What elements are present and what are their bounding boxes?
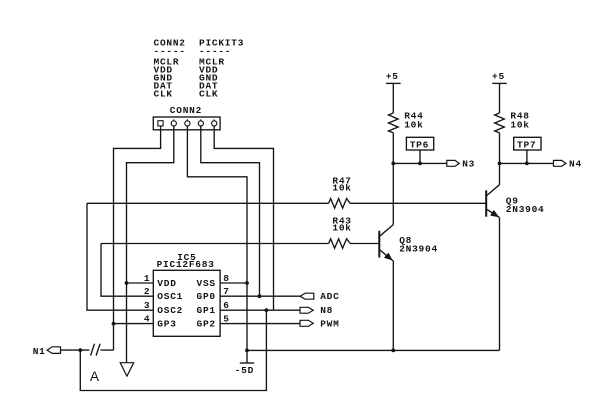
svg-text:N3: N3 xyxy=(462,158,475,169)
svg-text:CLK: CLK xyxy=(199,89,218,100)
wire OSC2 left riser xyxy=(87,203,153,310)
svg-text:TP7: TP7 xyxy=(517,140,536,151)
port N4 xyxy=(554,158,582,169)
wire OSC1 net to R43 xyxy=(101,243,329,245)
Q9 collector xyxy=(486,185,499,196)
junction dot GP1 xyxy=(265,308,269,312)
wire VSS to GND net xyxy=(220,282,247,284)
op IC5 PIC12F683 xyxy=(153,252,220,337)
junction dot N1 xyxy=(78,348,82,352)
resistor R44 xyxy=(389,110,424,132)
port ADC xyxy=(300,291,340,302)
wire OSC2 net to R47 xyxy=(87,202,329,204)
svg-text:VDD: VDD xyxy=(157,278,176,289)
svg-text:+5: +5 xyxy=(386,71,399,82)
svg-text:10k: 10k xyxy=(510,119,529,130)
node CONN2/PICKIT3 pin-name table xyxy=(154,38,245,100)
wire CONN2 pin4 to DAT net xyxy=(201,126,260,296)
wire node N4 rail xyxy=(500,162,554,164)
power +5 (right) xyxy=(492,71,507,83)
junction dot GP3 xyxy=(112,322,116,326)
wire +5 to R48 xyxy=(499,83,501,113)
testpoint TP7 xyxy=(514,137,541,150)
junction dot R44 node xyxy=(391,162,395,166)
ground triangle xyxy=(120,363,134,377)
wire OSC1 left riser xyxy=(101,244,153,297)
svg-text:10k: 10k xyxy=(332,223,351,234)
Q8 emitter arrow xyxy=(384,253,393,261)
wire node N3 rail xyxy=(393,162,447,164)
svg-text:N8: N8 xyxy=(320,305,333,316)
svg-text:2: 2 xyxy=(144,286,150,297)
resistor R47 xyxy=(329,175,352,208)
svg-text:PIC12F683: PIC12F683 xyxy=(157,259,215,270)
port PWM xyxy=(300,318,340,329)
svg-text:10k: 10k xyxy=(332,183,351,194)
pin 4 tick xyxy=(200,119,202,121)
wire breaker to GP3 riser xyxy=(101,349,114,351)
port N3 xyxy=(447,158,475,169)
svg-text:2N3904: 2N3904 xyxy=(399,244,438,255)
junction dot GP0 xyxy=(258,294,262,298)
Q9 emitter xyxy=(486,209,499,218)
junction dot TP6 node xyxy=(418,162,422,166)
Q8 collector xyxy=(379,225,393,237)
svg-text:GP2: GP2 xyxy=(197,319,216,330)
svg-text:N1: N1 xyxy=(33,346,46,357)
wire R44 to Q8 collector xyxy=(392,133,394,225)
pin 2 pad xyxy=(171,121,176,126)
Q9 emitter arrow xyxy=(490,210,499,217)
pin 4 pad xyxy=(198,121,203,126)
svg-text:10k: 10k xyxy=(404,119,423,130)
svg-text:PWM: PWM xyxy=(320,318,339,329)
svg-text:-5D: -5D xyxy=(235,365,254,376)
wire N1 to breaker xyxy=(61,349,90,351)
wire +5 to R44 xyxy=(392,83,394,113)
svg-text:GP0: GP0 xyxy=(197,291,216,302)
wire -5D bottom rail xyxy=(247,349,500,351)
svg-text:CONN2: CONN2 xyxy=(170,105,202,116)
testpoint TP6 xyxy=(406,137,433,150)
ground -5D xyxy=(235,363,254,376)
wire GP0 to ADC xyxy=(220,295,300,297)
pin 1 square pad xyxy=(158,121,163,126)
junction dot R48 node xyxy=(498,162,502,166)
svg-text:2N3904: 2N3904 xyxy=(506,204,545,215)
port N1 xyxy=(33,346,61,357)
Q8 emitter xyxy=(379,250,393,262)
wire Q8 emitter to rail xyxy=(392,261,394,350)
svg-text:A: A xyxy=(90,369,99,384)
pin 3 pad xyxy=(185,121,190,126)
pin 3 tick xyxy=(186,119,188,121)
wire GP2 to PWM xyxy=(220,323,300,325)
wire TP7 to node xyxy=(526,150,528,163)
wire CONN2 pin3 to GND net xyxy=(187,126,247,363)
transistor Q9 2N3904 xyxy=(486,185,544,218)
svg-text:1: 1 xyxy=(144,273,150,284)
transistor Q8 2N3904 xyxy=(379,225,438,261)
wire GP1 to N8 xyxy=(220,309,300,311)
pin 2 tick xyxy=(173,119,175,121)
wire Q9 emitter to rail xyxy=(499,218,501,351)
junction dot VSS xyxy=(245,281,249,285)
wire R47 to Q9 base xyxy=(350,202,486,204)
svg-text:ADC: ADC xyxy=(320,291,339,302)
svg-text:OSC2: OSC2 xyxy=(157,305,183,316)
wire GP3 stub xyxy=(114,323,154,325)
resistor R48 xyxy=(495,110,530,132)
wire R48 to Q9 collector xyxy=(499,133,501,185)
svg-text:+5: +5 xyxy=(492,71,505,82)
svg-text:GP1: GP1 xyxy=(197,305,216,316)
power +5 (left) xyxy=(386,71,401,83)
port N8 xyxy=(300,305,333,316)
svg-text:VSS: VSS xyxy=(197,278,216,289)
junction dot VDD xyxy=(125,281,129,285)
junction dot Q8 emitter rail xyxy=(391,349,395,353)
resistor R43 xyxy=(329,215,352,248)
capacitor breaker slashes xyxy=(91,344,101,356)
pin 5 pad xyxy=(212,121,217,126)
wire VDD stub xyxy=(127,282,154,284)
wire TP6 to node xyxy=(419,150,421,163)
svg-text:N4: N4 xyxy=(569,158,582,169)
pin 5 tick xyxy=(213,119,215,121)
junction dot GND rail xyxy=(245,349,249,353)
wire R43 to Q8 base xyxy=(350,243,379,245)
svg-text:TP6: TP6 xyxy=(410,140,429,151)
wire CONN2 pin5 to CLK net xyxy=(214,126,273,310)
wire CONN2 pin2 to VDD net xyxy=(127,126,174,363)
wire N1 to bottom run xyxy=(80,310,266,390)
connector CONN2 xyxy=(153,105,220,130)
svg-text:OSC1: OSC1 xyxy=(157,291,183,302)
svg-text:GP3: GP3 xyxy=(157,319,176,330)
svg-text:CLK: CLK xyxy=(154,89,173,100)
svg-text:3: 3 xyxy=(144,300,150,311)
junction dot TP7 node xyxy=(525,162,529,166)
wire CONN2 pin1 to MCLR net xyxy=(114,126,161,350)
svg-text:4: 4 xyxy=(144,314,150,325)
